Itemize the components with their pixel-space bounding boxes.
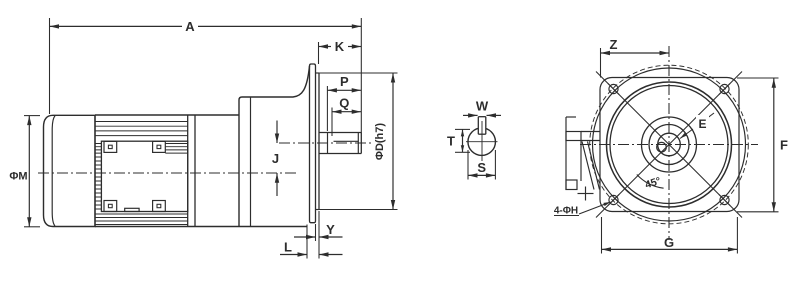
- svg-text:Z: Z: [610, 37, 618, 52]
- svg-text:4-ΦH: 4-ΦH: [554, 206, 578, 217]
- svg-text:G: G: [664, 235, 674, 250]
- svg-text:A: A: [185, 19, 195, 34]
- svg-text:J: J: [272, 151, 279, 166]
- svg-text:45°: 45°: [644, 175, 663, 191]
- svg-text:Y: Y: [326, 222, 335, 237]
- svg-text:ΦM: ΦM: [9, 171, 27, 183]
- svg-text:K: K: [335, 39, 345, 54]
- svg-text:L: L: [284, 240, 292, 255]
- svg-text:W: W: [476, 99, 489, 114]
- svg-text:T: T: [447, 134, 455, 149]
- svg-text:P: P: [340, 74, 349, 89]
- svg-text:S: S: [477, 160, 486, 175]
- svg-text:E: E: [698, 117, 706, 131]
- svg-text:F: F: [780, 138, 788, 153]
- svg-text:ΦD(h7): ΦD(h7): [374, 123, 386, 160]
- svg-text:Q: Q: [339, 96, 349, 111]
